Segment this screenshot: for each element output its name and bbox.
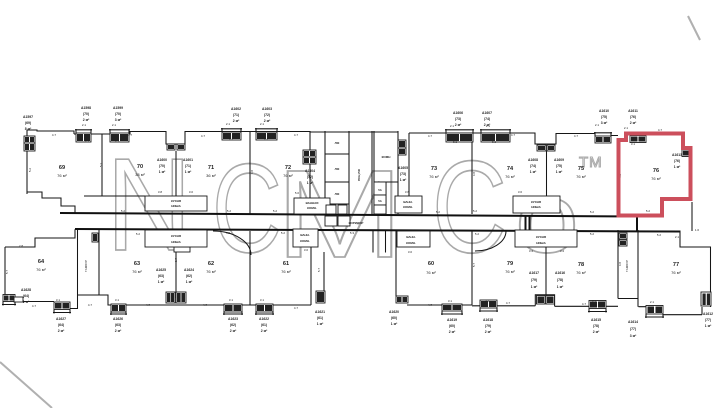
- svg-text:A1624: A1624: [184, 268, 194, 272]
- svg-text:2 м²: 2 м²: [83, 118, 90, 122]
- svg-text:1.6: 1.6: [695, 228, 700, 232]
- svg-text:4.7: 4.7: [203, 303, 208, 307]
- svg-text:75: 75: [578, 166, 584, 172]
- svg-text:5.2: 5.2: [273, 209, 278, 213]
- svg-text:A1597: A1597: [23, 115, 33, 119]
- svg-text:77: 77: [673, 262, 679, 268]
- svg-text:4.7: 4.7: [511, 133, 516, 137]
- svg-text:(61): (61): [261, 323, 267, 327]
- svg-text:(70): (70): [115, 112, 121, 116]
- svg-text:3.1: 3.1: [260, 298, 265, 302]
- svg-text:A1622: A1622: [259, 317, 269, 321]
- svg-text:A1605: A1605: [398, 166, 408, 170]
- svg-text:(73): (73): [400, 172, 406, 176]
- svg-text:76: 76: [653, 168, 659, 174]
- svg-text:3.1: 3.1: [115, 139, 120, 143]
- svg-text:2 м²: 2 м²: [115, 329, 122, 333]
- svg-text:2 м²: 2 м²: [630, 121, 637, 125]
- svg-text:2.1: 2.1: [650, 300, 655, 304]
- svg-text:2 м²: 2 м²: [485, 330, 492, 334]
- svg-text:5.2: 5.2: [99, 163, 103, 168]
- svg-text:4.7: 4.7: [506, 301, 511, 305]
- svg-text:A1628: A1628: [21, 288, 31, 292]
- svg-text:3 м²: 3 м²: [115, 118, 122, 122]
- svg-text:4.7: 4.7: [88, 303, 93, 307]
- svg-text:(61): (61): [317, 316, 323, 320]
- svg-text:70: 70: [137, 164, 143, 170]
- svg-text:5.2: 5.2: [590, 232, 595, 236]
- svg-text:A1614: A1614: [628, 320, 638, 324]
- svg-text:НИША: НИША: [536, 241, 546, 245]
- svg-text:1 м²: 1 м²: [674, 165, 681, 169]
- svg-text:3 м²: 3 м²: [630, 334, 637, 338]
- svg-text:1 м²: 1 м²: [531, 285, 538, 289]
- svg-text:2.1: 2.1: [486, 124, 491, 128]
- svg-text:3.1: 3.1: [631, 142, 636, 146]
- svg-text:3.1: 3.1: [485, 299, 490, 303]
- svg-text:(79): (79): [485, 324, 491, 328]
- svg-text:КОМН: КОМН: [382, 155, 391, 159]
- svg-text:5.2: 5.2: [281, 231, 286, 235]
- svg-text:4.8: 4.8: [250, 170, 254, 175]
- svg-text:A1616: A1616: [555, 271, 565, 275]
- svg-text:4.7: 4.7: [32, 304, 37, 308]
- svg-text:(64): (64): [58, 323, 64, 327]
- svg-text:61: 61: [283, 261, 289, 267]
- svg-text:76 м²: 76 м²: [429, 174, 439, 179]
- svg-text:A1598: A1598: [81, 106, 91, 110]
- svg-text:(60): (60): [449, 324, 455, 328]
- svg-text:A1623: A1623: [228, 317, 238, 321]
- svg-text:5.2: 5.2: [473, 209, 478, 213]
- svg-text:78: 78: [578, 262, 584, 268]
- svg-text:A1621: A1621: [315, 310, 325, 314]
- svg-text:1 м²: 1 м²: [317, 322, 324, 326]
- svg-text:76 м²: 76 м²: [651, 176, 661, 181]
- svg-text:A1610: A1610: [599, 109, 609, 113]
- svg-text:3.1: 3.1: [85, 139, 90, 143]
- svg-text:79: 79: [507, 261, 513, 267]
- svg-text:A1599: A1599: [113, 106, 123, 110]
- svg-text:A1620: A1620: [389, 310, 399, 314]
- svg-text:2 м²: 2 м²: [261, 329, 268, 333]
- svg-text:2 м²: 2 м²: [264, 119, 271, 123]
- svg-text:4.8: 4.8: [618, 262, 622, 267]
- svg-text:5.0: 5.0: [295, 191, 300, 195]
- svg-text:1 м²: 1 м²: [307, 181, 314, 185]
- svg-text:A1608: A1608: [528, 158, 538, 162]
- svg-text:5.2: 5.2: [475, 232, 480, 236]
- svg-text:2.1: 2.1: [112, 123, 117, 127]
- svg-text:2 м²: 2 м²: [230, 329, 237, 333]
- svg-text:3.1: 3.1: [229, 137, 234, 141]
- svg-text:(76): (76): [630, 115, 636, 119]
- svg-text:ЛФ: ЛФ: [335, 192, 340, 196]
- svg-text:73: 73: [431, 166, 437, 172]
- svg-text:4.7: 4.7: [294, 133, 299, 137]
- svg-text:2.1: 2.1: [82, 123, 87, 127]
- svg-text:(79): (79): [531, 278, 537, 282]
- svg-text:76 м²: 76 м²: [505, 269, 515, 274]
- svg-text:1 м²: 1 м²: [391, 322, 398, 326]
- svg-text:3 м²: 3 м²: [601, 121, 608, 125]
- svg-text:5.2: 5.2: [227, 209, 232, 213]
- svg-text:71: 71: [208, 165, 214, 171]
- svg-text:(74): (74): [484, 117, 490, 121]
- svg-text:КУХНЯ: КУХНЯ: [536, 235, 546, 239]
- svg-text:4.7: 4.7: [52, 133, 57, 137]
- svg-text:5.2: 5.2: [226, 231, 231, 235]
- svg-text:НИША: НИША: [171, 204, 181, 208]
- svg-text:A1611: A1611: [628, 109, 638, 113]
- svg-text:(78): (78): [593, 324, 599, 328]
- svg-text:3.4: 3.4: [529, 249, 534, 253]
- svg-text:КОМН.: КОМН.: [403, 205, 413, 209]
- svg-text:76 м²: 76 м²: [281, 269, 291, 274]
- svg-text:A1609: A1609: [554, 158, 564, 162]
- svg-text:3.1: 3.1: [56, 298, 61, 302]
- svg-text:76 м²: 76 м²: [36, 267, 46, 272]
- svg-text:ВАНН.: ВАНН.: [300, 233, 310, 237]
- svg-text:A1626: A1626: [113, 317, 123, 321]
- svg-text:76 м²: 76 м²: [671, 270, 681, 275]
- svg-text:(70): (70): [83, 112, 89, 116]
- svg-text:КУХНЯ: КУХНЯ: [171, 234, 181, 238]
- svg-text:3.1: 3.1: [453, 140, 458, 144]
- svg-text:2.1: 2.1: [260, 122, 265, 126]
- svg-text:1 м²: 1 м²: [530, 170, 537, 174]
- svg-text:C: C: [212, 138, 282, 279]
- svg-text:(71): (71): [185, 164, 191, 168]
- svg-text:5А: 5А: [378, 188, 382, 192]
- svg-text:76 м²: 76 м²: [283, 173, 293, 178]
- svg-text:(60): (60): [391, 316, 397, 320]
- svg-text:2 м²: 2 м²: [233, 119, 240, 123]
- svg-text:5.2: 5.2: [28, 168, 32, 173]
- svg-text:5.3: 5.3: [350, 231, 355, 235]
- svg-text:3.1: 3.1: [229, 298, 234, 302]
- svg-text:A1619: A1619: [447, 318, 457, 322]
- svg-text:2 м²: 2 м²: [58, 329, 65, 333]
- svg-text:ВАННАЯ: ВАННАЯ: [306, 201, 319, 205]
- svg-text:8 м²: 8 м²: [25, 127, 32, 131]
- svg-text:4.7: 4.7: [428, 134, 433, 138]
- svg-text:КОМН.: КОМН.: [300, 239, 310, 243]
- svg-text:1 м²: 1 м²: [186, 280, 193, 284]
- svg-text:A1618: A1618: [483, 318, 493, 322]
- svg-text:3.1: 3.1: [598, 138, 603, 142]
- svg-text:63: 63: [134, 261, 140, 267]
- svg-text:38 м²: 38 м²: [135, 172, 145, 177]
- svg-text:A1603: A1603: [262, 107, 272, 111]
- svg-text:C: C: [432, 133, 507, 280]
- svg-text:36 м²: 36 м²: [206, 173, 216, 178]
- svg-text:(72): (72): [307, 175, 313, 179]
- svg-text:ТАМБУР: ТАМБУР: [84, 260, 88, 272]
- svg-text:КУХНЯ: КУХНЯ: [171, 199, 181, 203]
- svg-text:ТАМБУР: ТАМБУР: [625, 260, 629, 272]
- svg-text:3.1: 3.1: [592, 299, 597, 303]
- svg-text:(75): (75): [556, 164, 562, 168]
- svg-text:5.7: 5.7: [317, 268, 321, 273]
- svg-text:60: 60: [428, 261, 434, 267]
- svg-text:ЛФ: ЛФ: [335, 167, 340, 171]
- svg-text:НИША: НИША: [171, 240, 181, 244]
- svg-text:A1612: A1612: [703, 312, 713, 316]
- svg-text:ВАНН.: ВАНН.: [406, 235, 416, 239]
- svg-text:2.1: 2.1: [595, 123, 600, 127]
- svg-text:ЛСЦ ЛФ: ЛСЦ ЛФ: [357, 169, 361, 181]
- svg-text:(71): (71): [233, 113, 239, 117]
- svg-text:(70): (70): [159, 164, 165, 168]
- svg-text:72: 72: [285, 165, 291, 171]
- svg-text:4.7: 4.7: [201, 134, 206, 138]
- svg-text:ЛФ: ЛФ: [335, 141, 340, 145]
- svg-text:1 м²: 1 м²: [400, 178, 407, 182]
- svg-text:5.2: 5.2: [590, 210, 595, 214]
- svg-text:1 м²: 1 м²: [705, 324, 712, 328]
- svg-text:5.2: 5.2: [121, 209, 126, 213]
- svg-text:4.7: 4.7: [146, 303, 151, 307]
- svg-text:74: 74: [507, 166, 514, 172]
- svg-text:76 м²: 76 м²: [206, 269, 216, 274]
- svg-text:5.7: 5.7: [472, 263, 476, 268]
- svg-text:3.6: 3.6: [518, 190, 523, 194]
- svg-text:4.7: 4.7: [658, 128, 663, 132]
- svg-text:(74): (74): [530, 164, 536, 168]
- svg-text:76 м²: 76 м²: [57, 173, 67, 178]
- svg-text:4.7: 4.7: [294, 306, 299, 310]
- svg-text:2.1: 2.1: [624, 126, 629, 130]
- svg-text:5.2: 5.2: [646, 209, 651, 213]
- svg-text:A1604: A1604: [305, 169, 315, 173]
- svg-text:2 м²: 2 м²: [449, 330, 456, 334]
- svg-text:КУХНЯ: КУХНЯ: [531, 200, 541, 204]
- svg-text:КОМН.: КОМН.: [406, 241, 416, 245]
- svg-text:1 м²: 1 м²: [23, 300, 30, 304]
- svg-text:2 м²: 2 м²: [593, 330, 600, 334]
- svg-text:(77): (77): [705, 318, 711, 322]
- svg-text:5.2: 5.2: [657, 233, 662, 237]
- svg-text:(69): (69): [25, 121, 31, 125]
- svg-text:(73): (73): [455, 117, 461, 121]
- svg-text:4.7: 4.7: [574, 134, 579, 138]
- svg-text:3.0: 3.0: [408, 250, 413, 254]
- svg-text:A1602: A1602: [231, 107, 241, 111]
- svg-text:1 м²: 1 м²: [557, 285, 564, 289]
- svg-text:3.1: 3.1: [115, 298, 120, 302]
- svg-text:ВАНН.: ВАНН.: [403, 200, 413, 204]
- svg-text:КОМН.: КОМН.: [307, 206, 317, 210]
- svg-text:(78): (78): [557, 278, 563, 282]
- svg-text:(76): (76): [674, 159, 680, 163]
- svg-text:(72): (72): [264, 113, 270, 117]
- svg-text:2.1: 2.1: [226, 122, 231, 126]
- svg-text:3.1: 3.1: [492, 140, 497, 144]
- svg-text:76 м²: 76 м²: [132, 269, 142, 274]
- svg-text:5А: 5А: [378, 199, 382, 203]
- svg-text:(64): (64): [23, 294, 29, 298]
- svg-text:A1600: A1600: [157, 158, 167, 162]
- svg-text:4.7: 4.7: [428, 303, 433, 307]
- svg-text:62: 62: [208, 261, 214, 267]
- svg-text:1 м²: 1 м²: [159, 170, 166, 174]
- svg-text:5.2: 5.2: [436, 210, 441, 214]
- svg-text:76 м²: 76 м²: [576, 174, 586, 179]
- svg-text:5.7: 5.7: [174, 258, 178, 263]
- svg-text:69: 69: [59, 165, 65, 171]
- svg-text:1 м²: 1 м²: [556, 170, 563, 174]
- svg-text:A1606: A1606: [453, 111, 463, 115]
- svg-text:3.0: 3.0: [189, 190, 194, 194]
- svg-text:(62): (62): [186, 274, 192, 278]
- svg-text:5.7: 5.7: [5, 270, 9, 275]
- svg-text:(75): (75): [601, 115, 607, 119]
- svg-text:64: 64: [38, 259, 45, 265]
- svg-text:1 м²: 1 м²: [158, 280, 165, 284]
- svg-text:76 м²: 76 м²: [505, 174, 515, 179]
- svg-text:76 м²: 76 м²: [426, 270, 436, 275]
- svg-text:3.8: 3.8: [158, 190, 163, 194]
- svg-text:3.1: 3.1: [448, 299, 453, 303]
- svg-text:4.7: 4.7: [582, 302, 587, 306]
- svg-text:(63): (63): [115, 323, 121, 327]
- svg-text:3.0: 3.0: [304, 248, 309, 252]
- svg-text:1 м²: 1 м²: [185, 170, 192, 174]
- svg-text:5.2: 5.2: [136, 232, 141, 236]
- svg-text:4.7: 4.7: [128, 133, 133, 137]
- svg-text:2.1: 2.1: [675, 235, 680, 239]
- svg-text:3.4: 3.4: [560, 249, 565, 253]
- svg-text:2 м²: 2 м²: [455, 123, 462, 127]
- svg-text:(63): (63): [158, 274, 164, 278]
- svg-text:A1607: A1607: [482, 111, 492, 115]
- svg-text:3.6: 3.6: [405, 190, 410, 194]
- svg-text:4.8: 4.8: [472, 172, 476, 177]
- svg-text:3.1: 3.1: [264, 137, 269, 141]
- svg-text:КОРИДОР: КОРИДОР: [349, 221, 364, 225]
- svg-text:A1615: A1615: [591, 318, 601, 322]
- svg-text:2.8: 2.8: [19, 244, 24, 248]
- svg-text:(77): (77): [630, 327, 636, 331]
- svg-text:2.1: 2.1: [450, 124, 455, 128]
- svg-text:A1613: A1613: [672, 153, 682, 157]
- svg-text:A1601: A1601: [183, 158, 193, 162]
- svg-text:НИША: НИША: [531, 205, 541, 209]
- svg-text:A1627: A1627: [56, 317, 66, 321]
- svg-text:A1617: A1617: [529, 271, 539, 275]
- svg-text:(62): (62): [230, 323, 236, 327]
- svg-text:76 м²: 76 м²: [576, 270, 586, 275]
- svg-text:A1625: A1625: [156, 268, 166, 272]
